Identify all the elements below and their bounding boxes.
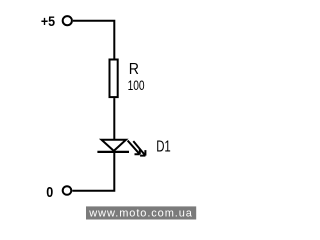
node 0 xyxy=(46,185,53,201)
wire xyxy=(113,98,115,139)
svg-text:R: R xyxy=(129,61,139,78)
resistor R xyxy=(110,60,118,98)
terminal +5 xyxy=(63,16,72,25)
svg-text:D1: D1 xyxy=(156,138,171,155)
wire xyxy=(73,21,114,59)
svg-text:www.moto.com.ua: www.moto.com.ua xyxy=(88,207,192,219)
node +5 xyxy=(41,14,55,29)
resistor label R xyxy=(129,61,139,78)
watermark bar www.moto.com.ua xyxy=(86,206,196,219)
terminal 0 xyxy=(63,186,72,195)
svg-text:100: 100 xyxy=(128,78,145,94)
resistor value 100 xyxy=(128,78,145,94)
wire xyxy=(72,152,115,191)
LED D1 xyxy=(97,140,145,156)
LED label D1 xyxy=(156,138,171,155)
svg-text:0: 0 xyxy=(46,185,53,201)
svg-text:+5: +5 xyxy=(41,14,55,29)
